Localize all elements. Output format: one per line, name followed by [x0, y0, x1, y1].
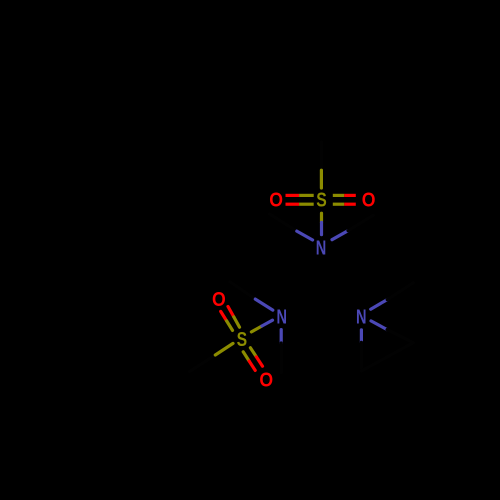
bond N1-C up-left (carbon half dark): [270, 214, 313, 240]
bond S1-N1: [320, 213, 323, 234]
double bond S1=O right: [333, 195, 356, 204]
svg-text:S: S: [237, 329, 248, 351]
svg-text:N: N: [276, 307, 287, 329]
double bond S1=O left: [286, 195, 314, 204]
svg-text:N: N: [356, 307, 367, 329]
svg-text:O: O: [269, 190, 283, 212]
bond N1-C up-right (carbon half dark): [332, 215, 373, 240]
svg-text:S: S: [316, 190, 327, 212]
bond C-C dark carbon skeleton edge (right): [361, 343, 413, 371]
bond CH3-S1 (top methyl to sulfur, carbon half dark): [320, 142, 323, 188]
double bond S2=O lower: [243, 348, 262, 371]
double bond S2=O upper: [221, 307, 240, 331]
bond N3-C down (carbon half dark): [360, 330, 363, 371]
svg-text:O: O: [362, 190, 376, 212]
bond N2-C up-left (carbon half dark): [230, 282, 273, 310]
bond CH3-S2 (left methyl to sulfur, carbon half dark): [190, 343, 233, 371]
bond N3-C down-right (carbon half dark): [371, 321, 413, 343]
svg-text:N: N: [316, 238, 327, 260]
bond N2-C down (carbon half dark): [280, 330, 283, 373]
svg-text:O: O: [212, 289, 226, 311]
svg-text:O: O: [259, 369, 273, 391]
bond N3-C up-right (carbon half dark): [371, 283, 414, 310]
bond S2-N2: [251, 320, 272, 332]
